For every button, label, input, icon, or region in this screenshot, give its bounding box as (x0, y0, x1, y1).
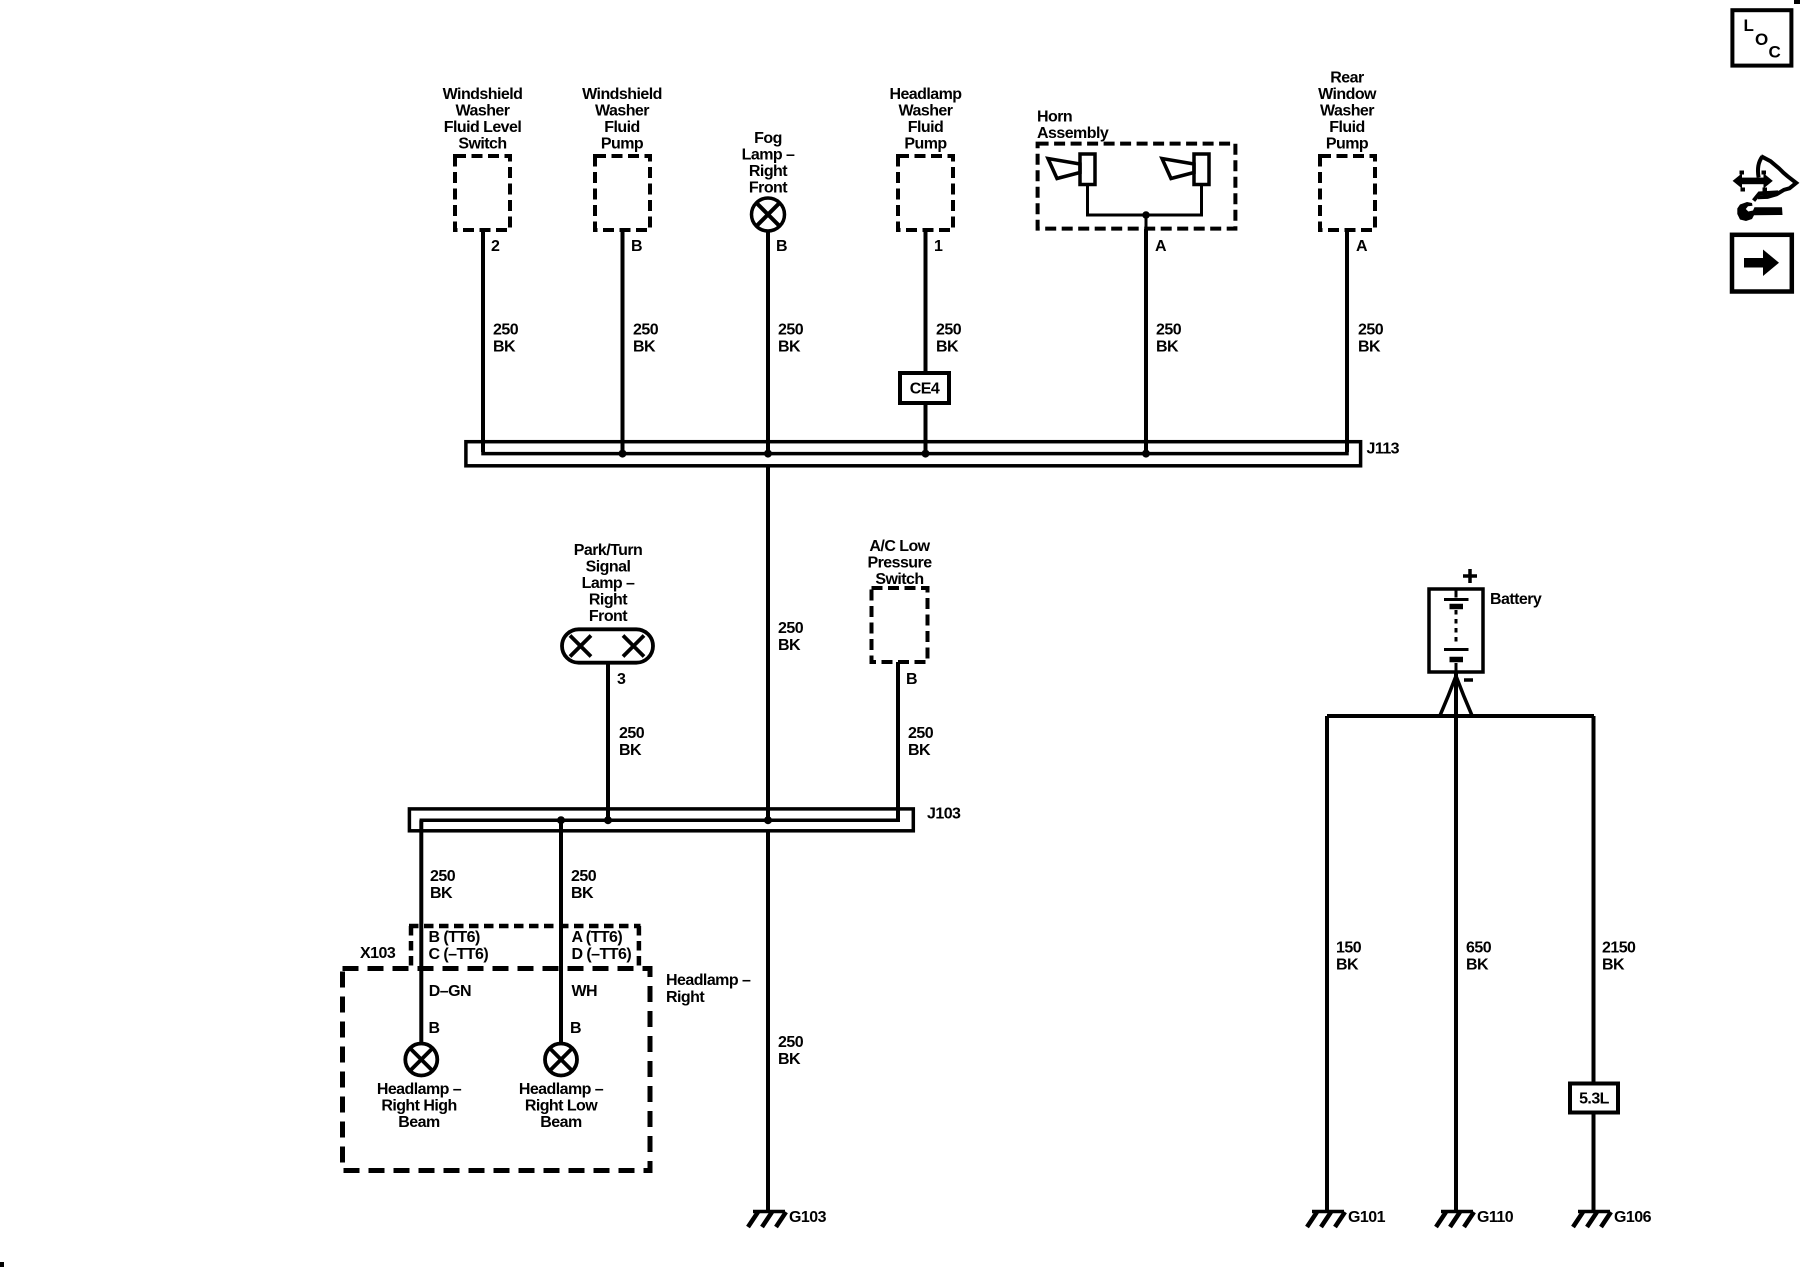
svg-text:J113: J113 (1367, 440, 1400, 457)
svg-text:250: 250 (619, 725, 645, 742)
svg-text:Headlamp –: Headlamp – (666, 972, 751, 989)
svg-text:WH: WH (572, 983, 598, 1000)
svg-text:O: O (1755, 30, 1768, 49)
svg-text:D–GN: D–GN (429, 983, 471, 1000)
svg-text:BK: BK (430, 885, 453, 902)
svg-text:B (TT6): B (TT6) (429, 929, 480, 946)
svg-text:Washer: Washer (1320, 103, 1374, 120)
svg-text:250: 250 (778, 620, 804, 637)
svg-text:BK: BK (493, 339, 516, 356)
svg-text:BK: BK (778, 1051, 801, 1068)
svg-text:Pump: Pump (904, 136, 947, 153)
svg-text:650: 650 (1466, 940, 1492, 957)
svg-text:BK: BK (1358, 339, 1381, 356)
svg-text:Pump: Pump (601, 136, 644, 153)
svg-text:G101: G101 (1348, 1209, 1386, 1226)
svg-text:250: 250 (633, 322, 659, 339)
svg-text:Pressure: Pressure (867, 555, 932, 572)
svg-text:Beam: Beam (398, 1114, 440, 1131)
svg-text:Right: Right (749, 163, 788, 180)
svg-text:BK: BK (1156, 339, 1179, 356)
svg-text:BK: BK (908, 742, 931, 759)
svg-text:Washer: Washer (899, 103, 953, 120)
svg-text:Fluid: Fluid (1329, 119, 1364, 136)
svg-text:A: A (1155, 238, 1167, 255)
svg-text:BK: BK (936, 339, 959, 356)
svg-text:Lamp –: Lamp – (742, 147, 795, 164)
svg-text:J103: J103 (927, 806, 961, 823)
svg-text:BK: BK (571, 885, 594, 902)
svg-text:C: C (1769, 43, 1781, 62)
svg-text:Horn: Horn (1037, 109, 1072, 126)
svg-text:Right: Right (666, 989, 705, 1006)
svg-text:2150: 2150 (1602, 940, 1636, 957)
svg-text:BK: BK (1336, 957, 1359, 974)
svg-text:G106: G106 (1614, 1209, 1652, 1226)
svg-text:A/C Low: A/C Low (869, 538, 930, 555)
svg-text:250: 250 (493, 322, 519, 339)
svg-text:BK: BK (1466, 957, 1489, 974)
svg-text:250: 250 (778, 322, 804, 339)
svg-text:Headlamp –: Headlamp – (519, 1081, 604, 1098)
svg-text:Right High: Right High (381, 1098, 456, 1115)
svg-text:B: B (906, 671, 917, 688)
svg-text:B: B (776, 238, 787, 255)
svg-text:Right: Right (589, 592, 628, 609)
svg-text:BK: BK (778, 637, 801, 654)
svg-text:250: 250 (1156, 322, 1182, 339)
svg-text:X103: X103 (360, 945, 396, 962)
svg-text:Windshield: Windshield (582, 86, 662, 103)
svg-text:Switch: Switch (458, 136, 506, 153)
svg-text:A (TT6): A (TT6) (572, 929, 623, 946)
svg-text:Battery: Battery (1490, 591, 1542, 608)
svg-text:Window: Window (1318, 86, 1377, 103)
svg-text:CE4: CE4 (910, 381, 940, 398)
svg-text:G110: G110 (1477, 1209, 1514, 1226)
svg-text:Switch: Switch (875, 571, 923, 588)
svg-text:G103: G103 (789, 1209, 827, 1226)
svg-text:150: 150 (1336, 940, 1362, 957)
svg-text:Right Low: Right Low (525, 1098, 598, 1115)
svg-text:B: B (429, 1020, 440, 1037)
svg-text:250: 250 (1358, 322, 1384, 339)
svg-text:Park/Turn: Park/Turn (574, 542, 643, 559)
svg-text:Lamp –: Lamp – (582, 575, 635, 592)
svg-text:BK: BK (633, 339, 656, 356)
svg-text:Fog: Fog (754, 130, 782, 147)
svg-text:BK: BK (619, 742, 642, 759)
svg-text:BK: BK (1602, 957, 1625, 974)
svg-text:2: 2 (491, 238, 500, 255)
svg-text:Front: Front (589, 608, 628, 625)
svg-text:Fluid Level: Fluid Level (444, 119, 522, 136)
svg-text:Headlamp –: Headlamp – (377, 1081, 462, 1098)
svg-text:Signal: Signal (586, 559, 631, 576)
svg-text:Beam: Beam (540, 1114, 582, 1131)
svg-text:5.3L: 5.3L (1579, 1091, 1610, 1108)
svg-text:B: B (570, 1020, 581, 1037)
svg-text:C (–TT6): C (–TT6) (429, 946, 489, 963)
svg-text:Windshield: Windshield (443, 86, 523, 103)
svg-text:Headlamp: Headlamp (889, 86, 962, 103)
svg-text:250: 250 (571, 868, 597, 885)
svg-text:BK: BK (778, 339, 801, 356)
svg-text:Fluid: Fluid (908, 119, 943, 136)
svg-text:Pump: Pump (1326, 136, 1369, 153)
svg-text:Fluid: Fluid (604, 119, 639, 136)
svg-text:B: B (631, 238, 642, 255)
svg-text:D (–TT6): D (–TT6) (572, 946, 632, 963)
svg-text:Rear: Rear (1330, 70, 1364, 87)
svg-text:A: A (1356, 238, 1368, 255)
svg-text:1: 1 (934, 238, 943, 255)
svg-text:Washer: Washer (456, 103, 510, 120)
svg-text:3: 3 (617, 671, 626, 688)
svg-text:Washer: Washer (595, 103, 649, 120)
svg-text:250: 250 (430, 868, 456, 885)
svg-text:Assembly: Assembly (1037, 125, 1109, 142)
svg-text:250: 250 (778, 1034, 804, 1051)
svg-text:L: L (1744, 16, 1754, 35)
svg-text:Front: Front (749, 180, 788, 197)
svg-text:250: 250 (936, 322, 962, 339)
svg-text:250: 250 (908, 725, 934, 742)
